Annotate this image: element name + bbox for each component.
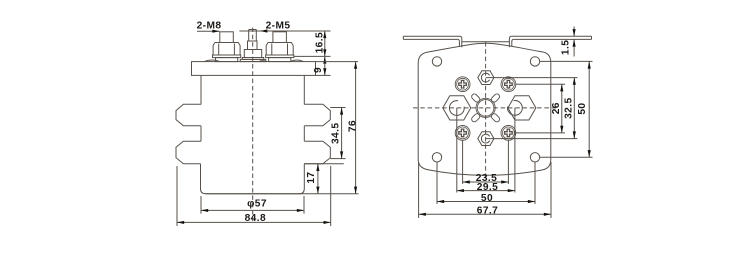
leader hole bottom-left down xyxy=(436,162,438,204)
dim 9 line xyxy=(324,56,326,75)
top mounting plate xyxy=(192,62,316,76)
small hex top inner circle xyxy=(481,73,489,82)
dome left on plate xyxy=(204,60,220,62)
corner hole top-left xyxy=(432,57,441,66)
terminal M8 right: washer xyxy=(266,55,294,58)
hex nut right inner circle (with gap) xyxy=(507,100,522,115)
screw M5 bottom-right xyxy=(501,125,516,140)
extension 84.8 right xyxy=(330,166,332,226)
svg-text:76: 76 xyxy=(348,120,359,132)
slot NW xyxy=(471,93,481,103)
svg-text:26: 26 xyxy=(551,102,562,114)
extension screw top to 26 xyxy=(516,83,565,85)
body wall between right tabs xyxy=(303,126,305,141)
extension phi57 left xyxy=(200,196,202,214)
extension washer top xyxy=(294,55,331,57)
dim 17 line xyxy=(317,164,319,194)
slot SE xyxy=(490,113,500,123)
dim 67.7 line xyxy=(419,213,551,215)
svg-text:34.5: 34.5 xyxy=(331,123,342,144)
terminal M8 left: base xyxy=(216,58,238,62)
leader line 2-M8 xyxy=(197,30,220,32)
dim 1.5 upper arrow xyxy=(573,27,575,37)
dim 16.5 line xyxy=(324,31,326,56)
svg-text:φ57: φ57 xyxy=(247,198,267,209)
svg-text:32.5: 32.5 xyxy=(564,97,575,118)
svg-text:84.8: 84.8 xyxy=(245,213,266,224)
svg-text:2-M5: 2-M5 xyxy=(266,20,291,31)
lower body (base can) xyxy=(201,164,305,194)
svg-text:29.5: 29.5 xyxy=(477,182,498,193)
leader hex left down xyxy=(456,108,458,193)
bracket flange left xyxy=(403,36,459,39)
dim 29.5 line xyxy=(457,190,515,192)
dim 32.5 line xyxy=(573,78,575,139)
terminal M8 right: base xyxy=(269,58,291,62)
terminal M8 left: cap xyxy=(220,32,234,43)
terminal M5 center: nut xyxy=(244,50,261,58)
body wall between left tabs xyxy=(200,126,202,141)
leader line 2-M5 joining 16.5 top extension xyxy=(239,30,330,32)
dome middle on plate xyxy=(259,61,268,62)
extension plate left edge down xyxy=(418,162,420,218)
extension plate top for 76 xyxy=(316,61,359,63)
dim 50 right line xyxy=(588,61,590,157)
center boss inner ring xyxy=(477,100,494,117)
leader screw bottom-right down xyxy=(507,140,509,184)
dim 84.8 line xyxy=(177,221,331,223)
svg-text:50: 50 xyxy=(481,193,493,204)
corner hole top-right xyxy=(530,57,539,66)
bracket tab lower-right xyxy=(304,141,330,164)
base bottom line extended right (extension for 17 and 76) xyxy=(206,193,359,195)
terminal M5 center: collar xyxy=(248,41,258,50)
hex nut left (M8 terminal) xyxy=(443,96,471,120)
centerline (left view vertical) xyxy=(252,28,254,222)
bracket tab lower-left xyxy=(176,141,201,164)
slot NE xyxy=(490,93,500,103)
bracket bend right xyxy=(509,36,513,47)
dim phi57 line xyxy=(201,209,304,211)
leader screw bottom-left down xyxy=(462,140,464,184)
dim 23.5 line xyxy=(463,181,509,183)
tab bottom line extended right (extension for 17 top) xyxy=(304,163,344,165)
upper body walls xyxy=(201,75,304,104)
svg-text:16.5: 16.5 xyxy=(314,32,325,53)
small hex bottom inner circle xyxy=(481,134,489,143)
extension plate right edge down xyxy=(550,162,552,218)
terminal M8 right: cap xyxy=(273,32,287,43)
svg-text:67.7: 67.7 xyxy=(477,206,498,217)
dim 26 line xyxy=(561,84,563,133)
bracket bend left xyxy=(457,36,461,47)
terminal M8 right: hex nut xyxy=(266,43,293,56)
svg-text:17: 17 xyxy=(306,172,317,184)
extension plate bottom xyxy=(316,74,331,76)
screw M5 top-right xyxy=(501,77,516,92)
dim 1.5 lower arrow xyxy=(573,39,575,56)
mounting plate outline (top view) xyxy=(418,43,551,175)
svg-text:9: 9 xyxy=(313,67,324,73)
small hex top xyxy=(478,71,494,85)
dim 76 line xyxy=(355,62,357,194)
center boss outer ring xyxy=(476,98,495,117)
hex nut left inner circle (with gap) xyxy=(449,101,464,116)
bracket flange right xyxy=(512,36,592,39)
corner hole bottom-right xyxy=(530,153,539,162)
hex nut right (M8 terminal) xyxy=(508,96,536,120)
terminal M8 left: hex nut xyxy=(213,43,240,56)
terminal M8 left: washer xyxy=(213,55,241,58)
small hex bottom xyxy=(478,132,494,146)
screw M5 bottom-left xyxy=(455,125,470,140)
screw M5 top-left xyxy=(455,77,470,92)
extension tab bottom for 34.5 xyxy=(330,158,345,160)
terminal M5 center: stud xyxy=(249,30,257,42)
extension screw bottom to 26 xyxy=(516,132,565,134)
svg-text:2-M8: 2-M8 xyxy=(197,20,222,31)
extension tab top for 34.5 xyxy=(330,107,345,109)
svg-text:1.5: 1.5 xyxy=(561,40,572,55)
centerline horizontal (right view) xyxy=(413,107,557,109)
leader hole bottom-right down xyxy=(534,162,536,204)
bracket tab upper-right xyxy=(304,104,330,126)
extension hole top to 50 xyxy=(540,60,593,62)
centerline vertical (right view) xyxy=(485,42,487,179)
dim 34.5 line xyxy=(341,108,343,159)
extension small hex bottom to 32.5 xyxy=(486,138,578,140)
extension hole bottom to 50 xyxy=(540,156,593,158)
dim 50 bottom line xyxy=(437,201,535,203)
terminal M5 center: base xyxy=(240,59,265,61)
svg-text:50: 50 xyxy=(577,103,588,115)
extension 84.8 left xyxy=(176,166,178,226)
extension small hex top to 32.5 xyxy=(486,77,578,79)
bracket far edge between bends xyxy=(462,41,510,43)
corner hole bottom-left xyxy=(432,153,441,162)
leader hex right down xyxy=(514,108,516,193)
slot SW xyxy=(471,113,481,123)
terminal M5 center: washer xyxy=(242,58,263,60)
bracket tab upper-left xyxy=(176,104,201,126)
dome right on plate xyxy=(290,60,304,62)
extension phi57 right xyxy=(303,196,305,214)
